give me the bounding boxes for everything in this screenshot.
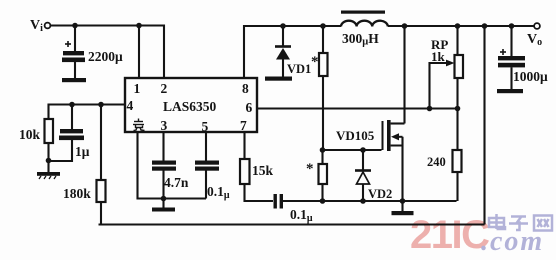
node junction gate	[320, 147, 326, 153]
svg-text:21IC: 21IC	[410, 213, 489, 257]
node junction RP bottom	[455, 106, 461, 112]
label pin-shell	[133, 119, 145, 131]
diode VD2	[355, 150, 371, 201]
svg-text:4.7n: 4.7n	[164, 175, 189, 190]
node junction 180k	[98, 102, 104, 108]
node junction VD1	[280, 23, 286, 29]
node Vi terminal	[45, 23, 51, 29]
resistor R sense lower	[319, 150, 328, 201]
svg-text:10k: 10k	[19, 127, 41, 142]
op-amp U1 LAS6350 box	[125, 78, 257, 132]
node junction 1000u	[509, 23, 515, 29]
node junction RP	[455, 23, 461, 29]
svg-text:180k: 180k	[63, 186, 91, 201]
node junction 1u	[69, 102, 75, 108]
ground under 10k	[37, 172, 60, 179]
resistor R 15k	[240, 159, 273, 201]
wire right vertical feedback	[483, 26, 485, 225]
wire gate	[323, 149, 382, 151]
node junction wiper	[427, 106, 433, 112]
node junction drain	[402, 23, 408, 29]
capacitor C 4.7n	[152, 161, 176, 199]
wire top-left rail	[51, 26, 165, 79]
wire pin1 drop	[138, 26, 140, 79]
capacitor C 0.1u pin5	[195, 161, 219, 199]
svg-text:300μH: 300μH	[342, 31, 379, 48]
svg-text:Vo: Vo	[527, 32, 542, 48]
svg-text:2: 2	[161, 81, 168, 96]
capacitor C 2200u	[62, 26, 86, 83]
wire pin7 stub	[243, 132, 245, 159]
node junction VD2 bottom	[360, 198, 366, 204]
ground main	[392, 201, 414, 215]
svg-text:*: *	[311, 54, 319, 70]
node junction ground mid	[161, 196, 167, 202]
capacitor C 0.1u series	[274, 194, 323, 209]
svg-text:*: *	[306, 161, 314, 177]
svg-text:240: 240	[427, 155, 446, 169]
svg-text:15k: 15k	[252, 163, 274, 178]
resistor R 180k	[97, 105, 106, 225]
svg-text:4: 4	[127, 98, 134, 113]
svg-text:VD2: VD2	[368, 187, 392, 201]
resistor R 10k	[45, 119, 54, 172]
svg-text:Vi: Vi	[30, 18, 43, 34]
node junction mosfet source	[400, 198, 406, 204]
diode VD1	[265, 26, 292, 81]
node junction below 10k	[46, 158, 52, 164]
svg-text:1k: 1k	[431, 49, 446, 64]
capacitor C 1000u	[497, 26, 525, 93]
svg-text:VD1: VD1	[287, 62, 311, 76]
svg-text:0.1μ: 0.1μ	[290, 207, 313, 224]
transistor Q VD105 mosfet	[383, 26, 405, 201]
wire pin6 net	[257, 107, 458, 109]
node Vo terminal	[534, 23, 540, 29]
node junction right vertical	[482, 23, 488, 29]
svg-text:1: 1	[134, 81, 141, 96]
capacitor C 1u	[49, 105, 85, 162]
wire pin4 net	[49, 105, 126, 120]
wire pin-shell stub	[138, 132, 207, 199]
node junction sense top	[320, 23, 326, 29]
node junction above 2200u	[72, 23, 78, 29]
svg-text:0.1μ: 0.1μ	[207, 184, 230, 201]
svg-text:7: 7	[240, 118, 247, 133]
svg-text:5: 5	[202, 119, 209, 134]
svg-text:6: 6	[246, 100, 253, 115]
node junction VD2 top	[360, 147, 366, 153]
wire pin3 stub	[162, 132, 164, 161]
wire top-right rail	[244, 26, 340, 78]
ground under IC	[152, 199, 175, 212]
node junction sense bottom	[320, 198, 326, 204]
potentiometer RP 1k	[430, 26, 464, 109]
svg-text:8: 8	[242, 81, 249, 96]
wire pin5 stub	[205, 132, 207, 161]
svg-text:.com: .com	[481, 226, 544, 257]
svg-text:3: 3	[161, 118, 168, 133]
svg-text:1μ: 1μ	[75, 144, 90, 159]
svg-text:VD105: VD105	[336, 128, 375, 143]
node junction pin1	[136, 23, 142, 29]
wire bottom rail	[99, 223, 485, 225]
svg-text:1000μ: 1000μ	[513, 69, 548, 84]
svg-text:2200μ: 2200μ	[88, 49, 123, 64]
watermark dianziwang	[489, 214, 552, 231]
resistor R 240	[453, 109, 462, 202]
inductor L 300uH	[323, 11, 388, 27]
wire snubber-ground net	[323, 200, 457, 202]
svg-text:LAS6350: LAS6350	[163, 99, 217, 114]
resistor R sense upper	[319, 26, 328, 150]
